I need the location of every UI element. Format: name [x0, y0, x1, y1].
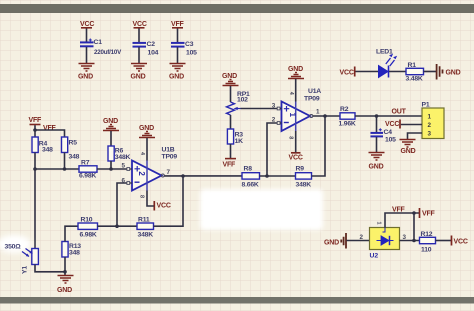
- wire VCC to LED1: [356, 71, 379, 73]
- svg-text:GND: GND: [131, 74, 146, 81]
- svg-text:3: 3: [272, 103, 276, 110]
- resistor R3 1K: [227, 129, 243, 145]
- svg-text:Y1: Y1: [22, 266, 29, 274]
- svg-text:VCC: VCC: [340, 70, 354, 77]
- svg-text:U2: U2: [370, 253, 379, 260]
- junction rail at R4: [33, 167, 37, 171]
- svg-text:TP09: TP09: [162, 154, 178, 161]
- svg-text:2: 2: [428, 122, 432, 129]
- wire junction to ground: [64, 272, 66, 276]
- resistor R7 6.98K: [79, 160, 97, 180]
- power port VFF left: [29, 117, 43, 125]
- wire U1B output to R8: [164, 175, 242, 177]
- svg-text:2: 2: [360, 234, 364, 241]
- svg-text:GND: GND: [446, 70, 461, 77]
- wire R3 to VFF: [230, 144, 232, 158]
- svg-text:8.66K: 8.66K: [242, 182, 259, 189]
- wire pin2 of U1A: [267, 123, 277, 176]
- resistor R2 1.96K: [339, 106, 356, 128]
- svg-text:348K: 348K: [296, 182, 312, 189]
- wire U2 top pin to VFF: [385, 213, 419, 228]
- svg-text:U1B: U1B: [162, 147, 175, 154]
- svg-text:3: 3: [428, 131, 432, 138]
- wire C3 to GND: [177, 47, 179, 63]
- svg-text:350Ω: 350Ω: [5, 244, 22, 251]
- wire R12 to VCC: [436, 240, 452, 242]
- svg-text:8: 8: [139, 195, 145, 198]
- power port VCC above C1: [80, 21, 94, 28]
- ground below C1: [78, 64, 95, 81]
- svg-text:OUT: OUT: [392, 109, 407, 116]
- svg-text:R5: R5: [69, 140, 78, 147]
- wire input rail to R7: [35, 168, 79, 170]
- svg-text:GND: GND: [78, 74, 93, 81]
- op-amp U1A TP09: [272, 79, 321, 152]
- junction output R11 riser: [181, 174, 185, 178]
- wire GND to R6: [110, 131, 112, 146]
- wire R2 to P1 pin1: [355, 115, 422, 117]
- capacitor C1 220uf/10V: [80, 39, 122, 57]
- svg-text:6: 6: [122, 178, 126, 185]
- junction at R12: [412, 239, 416, 243]
- connector P1: [422, 102, 445, 139]
- wire RP1 wiper to pin3: [241, 108, 278, 110]
- wire VCC to P1 pin2: [401, 124, 422, 126]
- svg-text:VFF: VFF: [29, 117, 43, 124]
- white patch behind 350 ohm label: [0, 235, 31, 253]
- earth ground right of R1: [437, 64, 461, 80]
- capacitor C2 104: [133, 41, 159, 57]
- ground above RP1: [222, 73, 239, 86]
- resistor R4 348: [32, 137, 53, 154]
- svg-text:VFF: VFF: [171, 21, 185, 28]
- svg-text:102: 102: [237, 97, 248, 104]
- svg-text:1: 1: [428, 114, 432, 121]
- wire R10 to R11: [98, 225, 138, 227]
- svg-text:VFF: VFF: [223, 162, 237, 169]
- wire R7 to pin5: [97, 168, 127, 170]
- capacitor C3 105: [171, 41, 197, 57]
- resistor R6 348K: [108, 146, 131, 161]
- white watermark patch center: [200, 189, 323, 230]
- svg-text:C1: C1: [94, 39, 103, 46]
- potentiometer RP1 102: [227, 91, 251, 115]
- resistor R1 3.48K: [406, 62, 424, 83]
- svg-text:1: 1: [376, 222, 382, 225]
- ground below Y1 R13: [57, 276, 74, 295]
- junction at VFF rail R4: [33, 128, 37, 132]
- svg-text:2: 2: [137, 171, 146, 176]
- wire LED1 to R1: [389, 71, 406, 73]
- resistor R11 348K: [137, 217, 154, 239]
- power port VFF above C3: [171, 21, 185, 28]
- wire U1A output to R2: [313, 115, 340, 117]
- svg-text:2: 2: [272, 117, 276, 124]
- wire VFF to C3: [177, 29, 179, 43]
- op-amp U1B TP09: [122, 138, 178, 206]
- junction Y1/R13/GND: [63, 270, 67, 274]
- svg-text:105: 105: [186, 50, 197, 57]
- svg-text:110: 110: [421, 247, 432, 254]
- svg-text:R8: R8: [244, 166, 253, 173]
- ground below C3: [169, 64, 186, 81]
- svg-text:1: 1: [288, 113, 297, 118]
- wire U2 pin3 to R12: [400, 240, 420, 242]
- svg-text:TP09: TP09: [304, 96, 320, 103]
- svg-text:VCC: VCC: [157, 203, 171, 210]
- junction rail at R5: [63, 167, 67, 171]
- earth ground left of U2: [324, 233, 346, 249]
- svg-text:R7: R7: [81, 160, 90, 167]
- wire riser to pin3 rail: [413, 213, 415, 241]
- wire R13 bottom: [64, 257, 66, 272]
- wire R5 bottom to rail: [64, 153, 66, 170]
- power port VCC below U1B: [154, 201, 171, 211]
- svg-text:1K: 1K: [235, 138, 244, 145]
- resistor R13 348: [62, 242, 81, 258]
- svg-text:VFF: VFF: [422, 211, 436, 218]
- wire R11 to riser: [154, 176, 184, 226]
- svg-text:5: 5: [122, 163, 126, 170]
- svg-text:C4: C4: [384, 129, 393, 136]
- resistor R12 110: [420, 231, 436, 254]
- svg-text:1: 1: [316, 109, 320, 116]
- wire GND to RP1: [230, 86, 232, 102]
- capacitor C4 105: [371, 128, 397, 143]
- top toolbar bar: [0, 4, 474, 13]
- svg-text:6.98K: 6.98K: [80, 232, 97, 239]
- wire R6 bottom: [110, 161, 112, 169]
- wire to C4: [376, 116, 378, 132]
- wire C1 to GND: [86, 47, 88, 64]
- junction pin2 riser: [265, 174, 269, 178]
- svg-text:348: 348: [42, 147, 53, 154]
- svg-text:R11: R11: [138, 217, 150, 224]
- LED LED1: [376, 49, 397, 78]
- svg-text:VCC: VCC: [133, 21, 147, 28]
- power port VCC below U1A: [289, 153, 303, 162]
- power port VCC right of R12: [452, 236, 468, 246]
- resistor R5 348: [62, 137, 80, 161]
- svg-text:104: 104: [148, 50, 159, 57]
- optocoupler U2: [370, 228, 400, 260]
- power port VCC at P1 pin2: [385, 120, 400, 129]
- svg-text:R12: R12: [421, 231, 433, 238]
- wire C4 to GND: [376, 137, 378, 153]
- svg-text:R2: R2: [340, 106, 349, 113]
- resistor R8 8.66K: [242, 166, 260, 189]
- svg-text:U1A: U1A: [308, 88, 321, 95]
- resistor R9 348K: [296, 166, 312, 189]
- junction R6 bottom: [109, 167, 113, 171]
- wire Y1 bottom to GND rail: [35, 265, 65, 272]
- wire R1 to GND: [424, 71, 437, 73]
- wire R4 top: [34, 130, 36, 137]
- wire GND to U2 pin2: [347, 240, 370, 242]
- svg-text:LED1: LED1: [376, 49, 393, 56]
- wire R4 bottom to rail: [34, 153, 36, 170]
- junction pin6 riser: [115, 224, 119, 228]
- svg-text:GND: GND: [169, 74, 184, 81]
- wire R13 top to R10 rail: [65, 226, 78, 241]
- ground above U1A: [288, 66, 304, 79]
- svg-text:VFF: VFF: [43, 125, 57, 132]
- svg-text:6.98K: 6.98K: [79, 173, 96, 180]
- svg-text:VCC: VCC: [385, 121, 399, 128]
- ground below P1 pin3: [400, 140, 416, 156]
- svg-text:VCC: VCC: [80, 21, 94, 28]
- svg-text:GND: GND: [57, 287, 72, 294]
- photoresistor Y1 350 ohm: [5, 244, 39, 275]
- junction output riser: [323, 114, 327, 118]
- power port VFF below R3: [223, 159, 237, 169]
- ground above U1B: [139, 125, 155, 138]
- svg-text:8: 8: [288, 136, 294, 139]
- wire VCC to C1: [86, 29, 88, 42]
- wire R8 to R9: [260, 175, 296, 177]
- wire R9 to output riser: [312, 116, 326, 176]
- wire VFF rail to R5: [35, 130, 65, 137]
- power port VCC above C2: [133, 21, 147, 28]
- svg-text:VFF: VFF: [392, 207, 406, 214]
- svg-text:105: 105: [385, 137, 396, 144]
- svg-text:348: 348: [69, 250, 80, 257]
- ground below C4: [369, 153, 385, 171]
- svg-text:348: 348: [69, 154, 80, 161]
- wire P1 pin3 to ground: [408, 133, 423, 140]
- svg-text:R1: R1: [408, 62, 417, 69]
- svg-text:VCC: VCC: [289, 155, 303, 162]
- svg-text:348K: 348K: [115, 154, 131, 161]
- svg-text:GND: GND: [324, 240, 339, 247]
- resistor R10 6.98K: [78, 217, 98, 239]
- svg-text:R10: R10: [81, 217, 93, 224]
- junction C4: [375, 114, 379, 118]
- wire VCC to C2: [138, 29, 140, 43]
- wire VFF down to rail: [34, 125, 36, 130]
- svg-text:7: 7: [167, 169, 171, 176]
- wire pin6 of U1B: [117, 183, 127, 226]
- wire left column down to Y1: [34, 169, 36, 249]
- svg-text:C3: C3: [185, 41, 194, 48]
- svg-text:GND: GND: [401, 148, 416, 155]
- junction VFF riser: [412, 211, 416, 215]
- power port VFF right: [420, 208, 436, 218]
- power port VCC left of LED1: [340, 67, 355, 77]
- wire RP1 to R3: [230, 115, 232, 129]
- svg-text:C2: C2: [147, 41, 156, 48]
- svg-text:R9: R9: [296, 166, 305, 173]
- svg-text:VCC: VCC: [454, 239, 468, 246]
- svg-text:3.48K: 3.48K: [406, 76, 423, 83]
- ground below C2: [131, 64, 148, 81]
- wire C2 to GND: [138, 47, 140, 63]
- svg-text:GND: GND: [369, 164, 384, 171]
- svg-text:220uf/10V: 220uf/10V: [94, 49, 122, 56]
- ground above R6: [103, 118, 119, 131]
- svg-text:1.96K: 1.96K: [339, 121, 356, 128]
- svg-text:348K: 348K: [138, 232, 154, 239]
- bottom status bar: [0, 297, 474, 304]
